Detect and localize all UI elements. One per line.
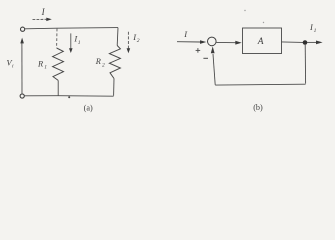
junction dot [303, 40, 308, 45]
svg-text:A: A [257, 37, 264, 47]
minus sign [203, 57, 208, 59]
svg-text:1: 1 [314, 28, 317, 34]
wire R1 lower lead [57, 80, 59, 95]
wire top rail (a) [25, 28, 118, 29]
wire bottom rail (a) [24, 95, 113, 98]
plus sign [196, 48, 201, 53]
resistor R1 [53, 48, 64, 80]
summing junction circle [208, 37, 217, 46]
terminal top-left [21, 27, 25, 31]
voltage arrow Vi [20, 38, 24, 94]
scan speck above block [244, 10, 245, 11]
svg-text:R: R [95, 57, 101, 66]
output arrow [307, 41, 323, 45]
resistor R2 [109, 46, 120, 79]
svg-text:(a): (a) [84, 104, 93, 113]
feedback wire bottom horizontal [215, 83, 305, 86]
wire R2 lower lead [113, 79, 115, 96]
terminal bottom-left [20, 94, 24, 98]
current arrow I2 (a) [127, 32, 131, 53]
wire R1 upper lead (dashed in scan) [56, 29, 58, 48]
block A [243, 28, 282, 54]
scan speck near block top [263, 22, 264, 23]
svg-text:2: 2 [137, 38, 140, 44]
feedback wire right vertical [304, 45, 306, 84]
current arrow I (a) [33, 18, 52, 22]
svg-text:2: 2 [102, 62, 105, 68]
current arrow I1 (a) [69, 33, 73, 53]
svg-text:1: 1 [44, 65, 47, 71]
wire right branch upper (a) [116, 28, 119, 46]
svg-text:1: 1 [78, 40, 81, 46]
output wire [282, 41, 304, 44]
svg-text:(b): (b) [253, 103, 263, 112]
arrow summing to block [216, 41, 241, 45]
feedback arrow into summing junction [211, 46, 215, 53]
junction speck on bottom rail [68, 96, 70, 98]
input arrow (b) [177, 40, 206, 44]
svg-text:R: R [37, 59, 43, 68]
feedback wire left vertical [213, 54, 215, 85]
